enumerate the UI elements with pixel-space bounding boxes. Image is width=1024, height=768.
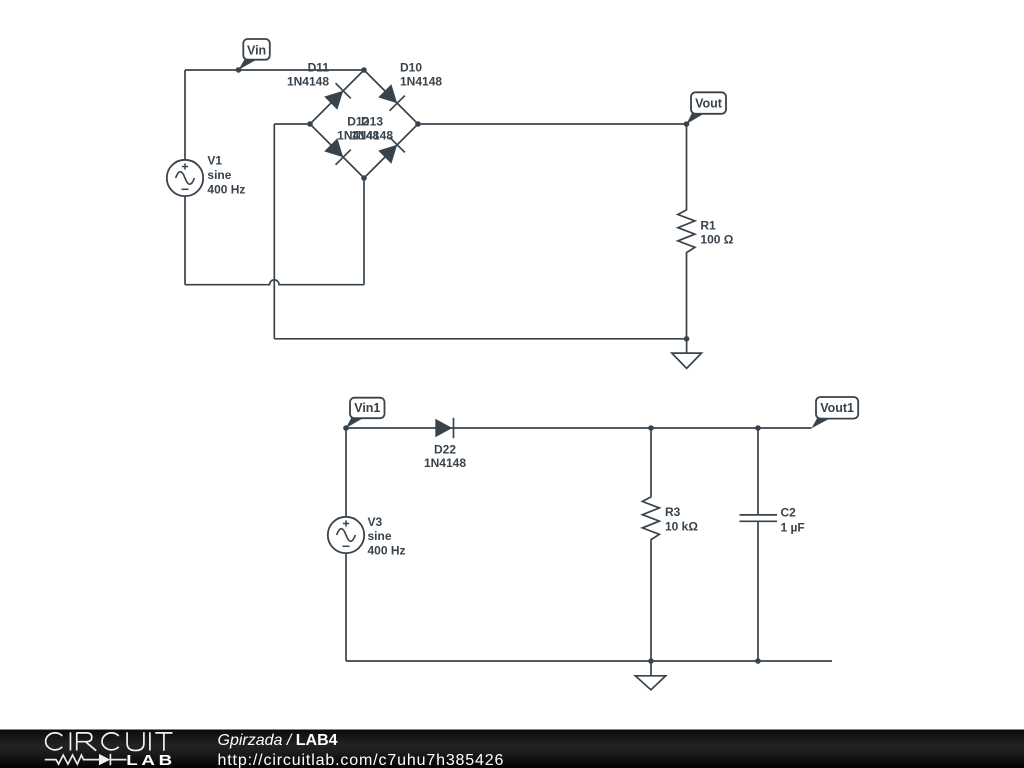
wire top from V1 to bridge top node: [185, 69, 364, 71]
diode D12: [324, 115, 379, 165]
svg-text:LAB: LAB: [126, 752, 176, 768]
voltage source V1: [167, 154, 246, 197]
svg-text:sine: sine: [368, 529, 392, 543]
junction dot bridge left node: [307, 121, 313, 127]
voltage source V3: [328, 515, 406, 558]
svg-text:1N4148: 1N4148: [287, 74, 329, 88]
svg-text:1N4148: 1N4148: [351, 128, 393, 142]
node Vin flag: [236, 39, 270, 73]
svg-text:D22: D22: [434, 442, 456, 456]
svg-text:C2: C2: [781, 505, 797, 519]
node Vin1 flag: [343, 398, 384, 431]
diode D22: [424, 418, 466, 470]
svg-text:R3: R3: [665, 505, 681, 519]
ground (top circuit): [672, 339, 702, 369]
wire bottom rail of bottom circuit: [346, 660, 832, 662]
node Vout flag: [684, 92, 726, 126]
svg-text:10 kΩ: 10 kΩ: [665, 520, 698, 534]
bridge edge wire top-right: [364, 70, 418, 124]
svg-text:D11: D11: [308, 61, 330, 75]
resistor R3: [642, 428, 698, 661]
url circuitlab link: [218, 752, 505, 768]
diode D11: [287, 61, 351, 110]
node Vout1 flag: [812, 397, 859, 428]
logo resistor-diode symbol: [45, 754, 127, 765]
svg-text:sine: sine: [207, 168, 231, 182]
svg-text:V1: V1: [207, 154, 222, 168]
ground (bottom circuit): [635, 661, 665, 690]
bridge edge wire top-left: [310, 70, 364, 124]
svg-text:400 Hz: 400 Hz: [207, 182, 245, 196]
junction dot C2 top: [755, 425, 761, 431]
svg-text:D10: D10: [400, 61, 422, 75]
wire bottom rail of top circuit: [274, 338, 686, 340]
svg-text:V3: V3: [368, 515, 383, 529]
junction dot bridge top node: [361, 67, 367, 73]
logo LAB text: [126, 752, 176, 768]
svg-text:Vout1: Vout1: [820, 401, 854, 415]
footer bar: [0, 730, 1024, 768]
diode D10: [378, 61, 442, 111]
svg-text:100 Ω: 100 Ω: [700, 232, 733, 246]
resistor R1: [678, 124, 734, 339]
svg-text:400 Hz: 400 Hz: [368, 544, 406, 558]
bridge edge wire bottom-left: [310, 124, 364, 178]
wire vertical down to bottom rail: [273, 124, 275, 339]
junction dot R3 bottom: [648, 658, 654, 664]
wire from bridge right node to Vout column: [418, 123, 687, 125]
svg-text:1N4148: 1N4148: [400, 74, 442, 88]
diode D13: [351, 115, 405, 164]
junction dot R3 top: [648, 425, 654, 431]
wire top rail of bottom circuit: [346, 427, 812, 429]
svg-text:D13: D13: [361, 115, 383, 129]
CircuitLab logo CIRCUIT wordmark: [46, 732, 173, 750]
wire left branch of V1: [184, 70, 186, 285]
svg-text:R1: R1: [700, 218, 716, 232]
junction dot bridge right node: [415, 121, 421, 127]
wire left branch of V3: [345, 428, 347, 661]
svg-text:Vin: Vin: [247, 43, 266, 57]
svg-text:Vout: Vout: [695, 96, 723, 110]
wire from bridge bottom node down to V1 bottom wire: [363, 178, 365, 285]
svg-text:Vin1: Vin1: [354, 401, 380, 415]
svg-text:1 µF: 1 µF: [781, 521, 805, 535]
title Gpirzada / LAB4: [218, 732, 338, 749]
wire from bridge left node going left: [274, 123, 310, 125]
svg-text:Gpirzada / LAB4: Gpirzada / LAB4: [218, 732, 338, 749]
junction dot C2 bottom: [755, 658, 761, 664]
capacitor C2: [740, 428, 805, 661]
bridge edge wire bottom-right: [364, 124, 418, 178]
svg-text:1N4148: 1N4148: [424, 456, 466, 470]
wire V1 bottom with hop over vertical wire: [185, 280, 364, 285]
junction dot bridge bottom node: [361, 175, 367, 181]
svg-text:http://circuitlab.com/c7uhu7h3: http://circuitlab.com/c7uhu7h385426: [218, 752, 505, 768]
junction dot at R1 bottom: [684, 336, 690, 342]
